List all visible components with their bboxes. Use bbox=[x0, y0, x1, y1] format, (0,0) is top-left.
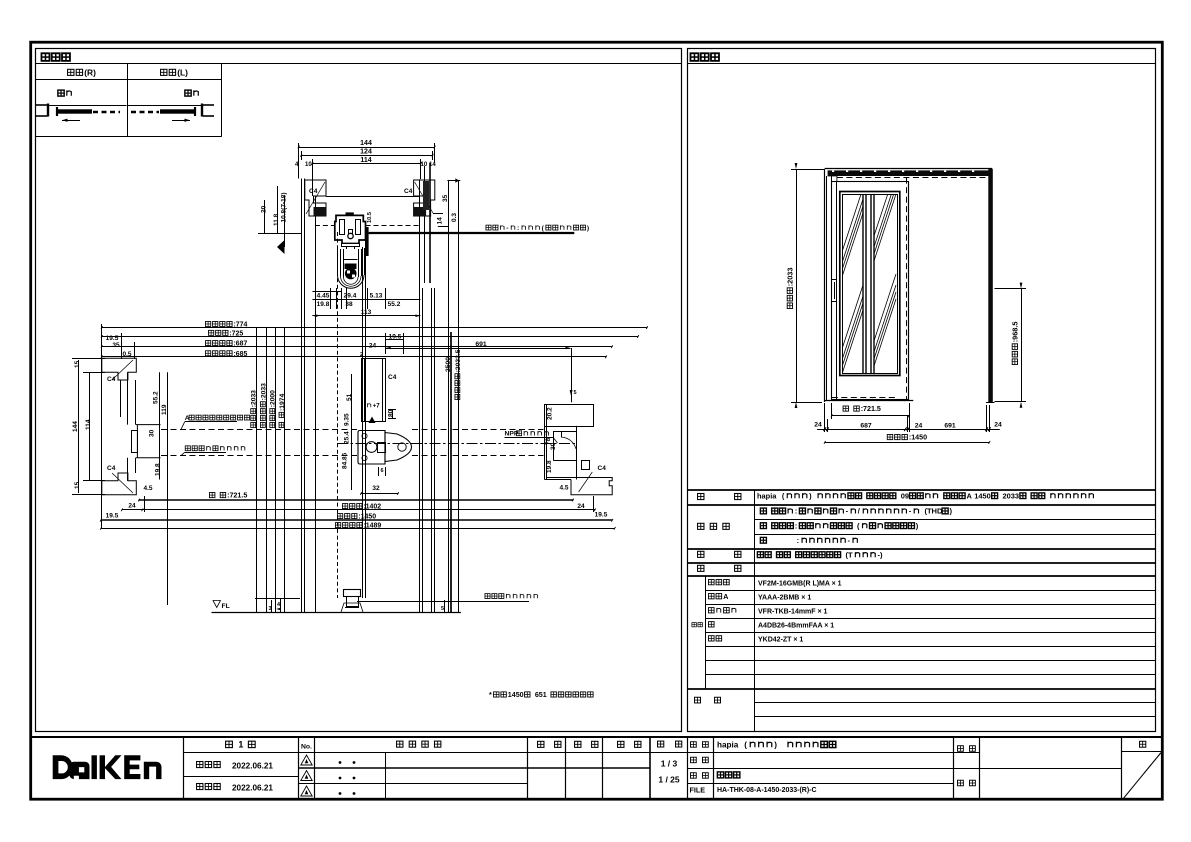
svg-text:20: 20 bbox=[260, 205, 267, 213]
svg-text:691: 691 bbox=[944, 423, 956, 430]
svg-text:24: 24 bbox=[994, 422, 1002, 429]
svg-text::687: :687 bbox=[234, 341, 248, 348]
svg-text::1450: :1450 bbox=[909, 434, 927, 442]
svg-text:5: 5 bbox=[441, 606, 444, 612]
svg-text:YKD42-ZT × 1: YKD42-ZT × 1 bbox=[758, 637, 803, 644]
svg-text::1450: :1450 bbox=[358, 514, 376, 521]
svg-text:29.4: 29.4 bbox=[344, 293, 357, 300]
svg-text:4.5: 4.5 bbox=[559, 485, 568, 492]
svg-text::2033: :2033 bbox=[260, 383, 267, 400]
svg-text:124: 124 bbox=[360, 149, 372, 156]
svg-text:HA-THK-08-A-1450-2033-(R)-C: HA-THK-08-A-1450-2033-(R)-C bbox=[717, 787, 817, 794]
svg-text:4.5: 4.5 bbox=[143, 485, 152, 492]
svg-text:144: 144 bbox=[360, 140, 372, 147]
svg-text:84.85: 84.85 bbox=[341, 452, 348, 469]
svg-text:/: / bbox=[858, 507, 861, 516]
svg-text:(: ( bbox=[542, 225, 545, 232]
svg-text:35: 35 bbox=[442, 194, 449, 202]
svg-text:(: ( bbox=[857, 521, 860, 530]
svg-text:1450: 1450 bbox=[508, 691, 524, 699]
svg-text:0.3: 0.3 bbox=[451, 213, 458, 222]
svg-text:*: * bbox=[489, 691, 492, 699]
svg-text:FILE: FILE bbox=[690, 786, 706, 795]
svg-text:(: ( bbox=[782, 491, 785, 500]
svg-text:10.5: 10.5 bbox=[367, 212, 373, 223]
svg-text:1: 1 bbox=[238, 740, 243, 750]
svg-text:19.8: 19.8 bbox=[154, 463, 161, 476]
svg-text::: : bbox=[795, 521, 798, 530]
svg-text:(THD: (THD bbox=[924, 507, 943, 516]
svg-text::: : bbox=[517, 225, 519, 232]
svg-text:19.5: 19.5 bbox=[595, 512, 608, 519]
svg-text::1402: :1402 bbox=[363, 504, 381, 511]
svg-text::774: :774 bbox=[234, 321, 248, 328]
svg-text::2033.5: :2033.5 bbox=[455, 349, 462, 372]
svg-text::1974: :1974 bbox=[279, 394, 286, 411]
svg-text:5: 5 bbox=[574, 390, 577, 396]
svg-text::2033: :2033 bbox=[251, 390, 258, 407]
svg-text::2000: :2000 bbox=[270, 390, 277, 407]
svg-text:No.: No. bbox=[301, 743, 312, 750]
svg-text:hapia: hapia bbox=[757, 491, 777, 500]
svg-text:1 / 3: 1 / 3 bbox=[661, 759, 678, 769]
svg-text:hapia: hapia bbox=[717, 740, 739, 749]
svg-text::1489: :1489 bbox=[364, 523, 382, 530]
svg-text:19.5: 19.5 bbox=[106, 513, 119, 520]
svg-text:C4: C4 bbox=[309, 188, 318, 195]
svg-text:55.2: 55.2 bbox=[152, 391, 159, 404]
svg-text:35: 35 bbox=[112, 342, 120, 349]
svg-text:113: 113 bbox=[361, 309, 372, 316]
svg-text:2: 2 bbox=[360, 352, 363, 358]
svg-text::725: :725 bbox=[229, 330, 243, 337]
svg-text::: : bbox=[795, 507, 798, 516]
svg-text:-: - bbox=[846, 507, 849, 516]
svg-text:-: - bbox=[848, 536, 851, 545]
svg-text:A: A bbox=[966, 491, 972, 500]
svg-text:(R): (R) bbox=[84, 67, 96, 77]
svg-text:15: 15 bbox=[74, 360, 81, 368]
svg-text:0.5: 0.5 bbox=[122, 351, 131, 358]
svg-text:80: 80 bbox=[387, 409, 394, 417]
svg-text:691: 691 bbox=[475, 341, 487, 348]
svg-text:15: 15 bbox=[74, 481, 81, 489]
svg-text::685: :685 bbox=[234, 351, 248, 358]
svg-text:A4DB26-4BmmFAA × 1: A4DB26-4BmmFAA × 1 bbox=[758, 623, 834, 630]
svg-text:-): -) bbox=[878, 550, 884, 559]
svg-text:24: 24 bbox=[814, 422, 822, 429]
svg-text:1 / 25: 1 / 25 bbox=[658, 775, 680, 785]
svg-text:24: 24 bbox=[128, 503, 136, 510]
svg-text:25.4: 25.4 bbox=[343, 431, 350, 444]
svg-text:10: 10 bbox=[305, 162, 312, 168]
svg-text:YAAA-2BMB × 1: YAAA-2BMB × 1 bbox=[758, 595, 811, 602]
svg-text:(L): (L) bbox=[177, 67, 188, 77]
svg-text:19.5: 19.5 bbox=[106, 335, 119, 342]
svg-text:VFR-TKB-14mmF × 1: VFR-TKB-14mmF × 1 bbox=[758, 609, 828, 616]
svg-text:11.8: 11.8 bbox=[273, 213, 280, 226]
svg-text:14: 14 bbox=[436, 217, 443, 225]
svg-text:): ) bbox=[916, 521, 919, 530]
svg-text:FL: FL bbox=[222, 603, 230, 610]
svg-text:6: 6 bbox=[380, 468, 383, 474]
svg-text:C4: C4 bbox=[107, 376, 116, 383]
svg-text:20.2: 20.2 bbox=[546, 407, 553, 420]
svg-text:2500: 2500 bbox=[445, 357, 452, 372]
svg-text:144: 144 bbox=[72, 421, 79, 432]
svg-text::968.5: :968.5 bbox=[1011, 321, 1020, 342]
svg-text:(: ( bbox=[744, 740, 747, 749]
svg-text:687: 687 bbox=[860, 423, 872, 430]
svg-text:32: 32 bbox=[372, 485, 380, 492]
svg-text:): ) bbox=[950, 507, 953, 516]
svg-text:24: 24 bbox=[915, 423, 923, 430]
svg-text:114: 114 bbox=[85, 419, 92, 430]
svg-text:19.8: 19.8 bbox=[317, 301, 330, 308]
svg-text:A: A bbox=[723, 592, 729, 601]
svg-text:24: 24 bbox=[577, 503, 585, 510]
svg-text:9.35: 9.35 bbox=[343, 413, 350, 426]
svg-text:C4: C4 bbox=[107, 465, 116, 472]
svg-text:+7: +7 bbox=[373, 402, 381, 409]
svg-text::721.5: :721.5 bbox=[227, 492, 247, 500]
svg-text::: : bbox=[797, 536, 800, 545]
svg-text:2022.06.21: 2022.06.21 bbox=[232, 761, 273, 770]
svg-text:5.13: 5.13 bbox=[370, 293, 383, 300]
svg-text:4.45: 4.45 bbox=[317, 293, 330, 300]
svg-text:VF2M-16GMB(R L)MA × 1: VF2M-16GMB(R L)MA × 1 bbox=[758, 581, 842, 588]
svg-text:114: 114 bbox=[360, 157, 371, 164]
svg-text:-: - bbox=[909, 507, 912, 516]
svg-text::2033: :2033 bbox=[786, 268, 795, 287]
svg-text:2033: 2033 bbox=[1003, 491, 1020, 500]
svg-text:): ) bbox=[587, 225, 589, 232]
svg-text:10: 10 bbox=[421, 162, 428, 168]
svg-text:): ) bbox=[809, 491, 812, 500]
svg-text:10.8(7-18): 10.8(7-18) bbox=[280, 193, 287, 223]
svg-text:09: 09 bbox=[901, 491, 909, 500]
svg-text:C4: C4 bbox=[404, 188, 413, 195]
svg-text:30: 30 bbox=[550, 442, 557, 450]
svg-text:C4: C4 bbox=[598, 465, 607, 472]
svg-text:651: 651 bbox=[535, 691, 547, 699]
svg-text:24: 24 bbox=[369, 343, 377, 350]
svg-text::721.5: :721.5 bbox=[861, 405, 881, 413]
svg-text:14: 14 bbox=[429, 162, 436, 168]
svg-text:1450: 1450 bbox=[974, 491, 991, 500]
svg-text:C4: C4 bbox=[388, 374, 397, 381]
svg-text:): ) bbox=[774, 740, 777, 749]
svg-text:30: 30 bbox=[148, 429, 155, 437]
svg-text:119: 119 bbox=[161, 404, 168, 415]
svg-text:-: - bbox=[506, 225, 508, 232]
svg-text:2022.06.21: 2022.06.21 bbox=[232, 783, 273, 792]
svg-text:(T: (T bbox=[846, 550, 854, 559]
svg-text:55.2: 55.2 bbox=[388, 301, 401, 308]
